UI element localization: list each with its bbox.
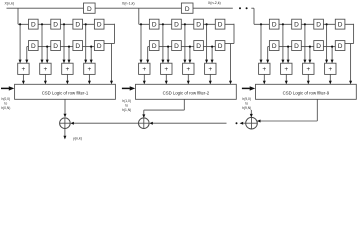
junction on row-1 line, section 9 bbox=[260, 23, 262, 25]
junction on row-1 line, section 9 bbox=[282, 23, 284, 25]
svg-text:+: + bbox=[87, 66, 91, 73]
svg-text:h(9,N): h(9,N) bbox=[242, 106, 251, 110]
register D7 (row 2) of section 9 bbox=[314, 41, 324, 51]
pair adder A2 of section 2 bbox=[161, 63, 172, 74]
svg-text:D: D bbox=[218, 22, 223, 29]
wire: row-2 tap drop 1 of section 2 bbox=[167, 47, 169, 63]
wire: adder A3 output into CSD box, section 1 bbox=[66, 74, 68, 83]
svg-text:X(n,k): X(n,k) bbox=[5, 1, 15, 5]
ellipsis dot on top line bbox=[239, 7, 241, 9]
pair adder A4 of section 2 bbox=[205, 63, 216, 74]
svg-text:CSD Logic of row filter-2: CSD Logic of row filter-2 bbox=[163, 91, 210, 96]
wire: row-1 delay line of section 2 bbox=[139, 23, 234, 25]
register D (row delay 2) on top line bbox=[181, 3, 193, 13]
svg-text:D: D bbox=[75, 43, 80, 50]
wire: wrap-around (right) of section 1 bbox=[114, 24, 116, 44]
junction on row-1 line, section 9 bbox=[326, 23, 328, 25]
junction on row-2 line, section 1 bbox=[90, 46, 92, 48]
register D2 (row 1) of section 9 bbox=[292, 19, 302, 29]
wire: row-2 tap drop 2 of section 9 bbox=[309, 47, 311, 63]
wire: adder A3 output into CSD box, section 2 bbox=[187, 74, 189, 83]
svg-text:+: + bbox=[208, 66, 212, 73]
pair adder A3 of section 2 bbox=[183, 63, 194, 74]
svg-text:+: + bbox=[328, 66, 332, 73]
wire: tap drop from top line into section 9 bbox=[253, 8, 255, 24]
wire: tap drop 4 to pair-adder of section 2 bbox=[206, 24, 208, 62]
svg-text:D: D bbox=[294, 43, 299, 50]
register D1 (row 1) of section 9 bbox=[269, 19, 279, 29]
svg-text:+: + bbox=[262, 66, 266, 73]
register D6 (row 2) of section 1 bbox=[51, 41, 61, 51]
svg-text:D: D bbox=[316, 43, 321, 50]
svg-text:D: D bbox=[97, 22, 102, 29]
wire: row-2 tap drop 1 of section 1 bbox=[46, 47, 48, 63]
pair adder A3 of section 9 bbox=[303, 63, 314, 74]
svg-text:y(n,k): y(n,k) bbox=[73, 137, 82, 141]
wire: row-2 tap drop 2 of section 1 bbox=[68, 47, 70, 63]
wire: row-1 delay line of section 9 bbox=[254, 23, 354, 25]
wire: adder S2 output to adder S1 bbox=[74, 122, 139, 124]
junction on row-1 line, section 9 bbox=[304, 23, 306, 25]
wire: row-2 segment 2 of section 9 bbox=[301, 46, 314, 48]
wire: adder A4 output into CSD box, section 1 bbox=[88, 74, 90, 83]
junction on row-1 line, section 1 bbox=[63, 23, 65, 25]
pair adder A3 of section 1 bbox=[62, 63, 73, 74]
junction on row-2 line, section 2 bbox=[167, 46, 169, 48]
wire: top line stub to section 3 bbox=[251, 7, 254, 9]
wire: tap drop 1 to pair-adder of section 1 bbox=[19, 24, 21, 62]
svg-text:+: + bbox=[284, 66, 288, 73]
wire: row-2 segment 2 of section 1 bbox=[60, 46, 73, 48]
svg-text:D: D bbox=[272, 22, 277, 29]
wire: final output y(n,k) bbox=[64, 129, 66, 138]
junction on row-2 line, section 2 bbox=[211, 46, 213, 48]
pair adder A2 of section 9 bbox=[281, 63, 292, 74]
wire: row-1 delay line of section 1 bbox=[18, 23, 115, 25]
pair adder A1 of section 2 bbox=[139, 63, 150, 74]
junction on row-2 line, section 1 bbox=[68, 46, 70, 48]
wire: row-2 tap drop 2 of section 2 bbox=[189, 47, 191, 63]
wire: wrap-around (right) of section 2 bbox=[233, 24, 235, 44]
svg-text:D: D bbox=[87, 6, 92, 13]
wire: CSD filter-2 output into adder S2 bbox=[183, 99, 185, 110]
register D (row delay 1) on top line bbox=[84, 3, 96, 13]
wire: adder A4 output into CSD box, section 9 bbox=[329, 74, 331, 83]
svg-text:D: D bbox=[316, 22, 321, 29]
svg-text:+: + bbox=[164, 66, 168, 73]
junction on row-1 line, section 1 bbox=[85, 23, 87, 25]
junction on row-2 line, section 1 bbox=[46, 46, 48, 48]
wire: partial-sum arrow into adder S9 top bbox=[250, 110, 252, 117]
wire: centre-tap drop into CSD box 2 bbox=[230, 44, 232, 84]
wire: tap drop 2 to pair-adder of section 1 bbox=[41, 24, 43, 62]
register D7 (row 2) of section 1 bbox=[73, 41, 83, 51]
wire: adder S9 output into ellipsis bbox=[240, 122, 244, 125]
coefficient input arrow of section 2 bbox=[122, 87, 130, 89]
wire: adder A4 output into CSD box, section 2 bbox=[209, 74, 211, 83]
wire: row-2 segment 3 of section 2 bbox=[203, 46, 215, 48]
block U9: CSD Logic of row filter-9 bbox=[256, 84, 357, 99]
junction on row-2 line, section 9 bbox=[287, 46, 289, 48]
svg-text:D: D bbox=[218, 43, 223, 50]
wire: tap drop 2 to pair-adder of section 9 bbox=[282, 24, 284, 62]
svg-text:D: D bbox=[196, 22, 201, 29]
svg-text:h(0,N): h(0,N) bbox=[1, 106, 10, 110]
svg-text:X(n-1,k): X(n-1,k) bbox=[122, 2, 135, 6]
junction on row-1 line, section 2 bbox=[162, 23, 164, 25]
register D8 (row 2) of section 9 bbox=[335, 41, 345, 51]
wire: tap drop 1 to pair-adder of section 2 bbox=[140, 24, 142, 62]
wire: adder A2 output into CSD box, section 2 bbox=[165, 74, 167, 83]
wire: row-2 segment 2 of section 2 bbox=[181, 46, 194, 48]
wire: centre-tap drop into CSD box 9 bbox=[350, 44, 352, 84]
junction on row-2 line, section 9 bbox=[331, 46, 333, 48]
wire: row-2 segment 3 of section 1 bbox=[83, 46, 95, 48]
wire: adder A2 output into CSD box, section 1 bbox=[44, 74, 46, 83]
wire: wrap-around (right) of section 9 bbox=[353, 24, 355, 44]
svg-text:+: + bbox=[142, 66, 146, 73]
svg-text:CSD Logic of row filter-9: CSD Logic of row filter-9 bbox=[283, 91, 330, 96]
wire: row-2 output hook of section 9 bbox=[268, 46, 270, 48]
adder S9 (output summer) bbox=[246, 117, 258, 129]
register D5 (row 2) of section 9 bbox=[269, 41, 279, 51]
register D4 (row 1) of section 2 bbox=[215, 19, 225, 29]
wire: tap drop 3 to pair-adder of section 2 bbox=[184, 24, 186, 62]
wire: row-2 segment 1 of section 1 bbox=[38, 46, 51, 48]
wire: tap drop 1 to pair-adder of section 9 bbox=[260, 24, 262, 62]
svg-text:D: D bbox=[338, 43, 343, 50]
register D4 (row 1) of section 1 bbox=[94, 19, 104, 29]
register D3 (row 1) of section 9 bbox=[314, 19, 324, 29]
junction on row-1 line, section 1 bbox=[19, 23, 21, 25]
adder S1 (output summer) bbox=[60, 118, 71, 129]
wire: row-2 segment 1 of section 2 bbox=[159, 46, 172, 48]
junction on row-1 line, section 2 bbox=[206, 23, 208, 25]
wire: tap drop 3 to pair-adder of section 1 bbox=[63, 24, 65, 62]
pair adder A1 of section 1 bbox=[18, 63, 29, 74]
svg-text:+: + bbox=[186, 66, 190, 73]
svg-text:D: D bbox=[185, 6, 190, 13]
wire: adder A1 output into CSD box, section 1 bbox=[22, 74, 24, 83]
register D4 (row 1) of section 9 bbox=[335, 19, 345, 29]
pair adder A2 of section 1 bbox=[40, 63, 51, 74]
coefficient input arrow of section 1 bbox=[1, 87, 9, 89]
wire: adder A3 output into CSD box, section 9 bbox=[307, 74, 309, 83]
wire: adder A2 output into CSD box, section 9 bbox=[285, 74, 287, 83]
wire: row-2 segment 1 of section 9 bbox=[279, 46, 292, 48]
wire: row-2 output hook of section 1 bbox=[27, 46, 29, 48]
register D3 (row 1) of section 1 bbox=[73, 19, 83, 29]
register D1 (row 1) of section 1 bbox=[29, 19, 39, 29]
register D6 (row 2) of section 2 bbox=[172, 41, 182, 51]
register D5 (row 2) of section 1 bbox=[29, 41, 39, 51]
svg-text:D: D bbox=[338, 22, 343, 29]
block U2: CSD Logic of row filter-2 bbox=[136, 84, 237, 99]
adder S2 (output summer) bbox=[139, 118, 150, 129]
wire: tap drop from top line into section 1 bbox=[17, 8, 19, 24]
junction on row-2 line, section 2 bbox=[189, 46, 191, 48]
ellipsis dot on top line bbox=[246, 7, 248, 9]
wire: tap drop 3 to pair-adder of section 9 bbox=[304, 24, 306, 62]
wire: row-2 output hook of section 2 bbox=[148, 46, 150, 48]
svg-text:+: + bbox=[21, 66, 25, 73]
junction on row-2 line, section 9 bbox=[309, 46, 311, 48]
svg-text:D: D bbox=[53, 43, 58, 50]
svg-text:to: to bbox=[4, 101, 7, 105]
wire: adder A1 output into CSD box, section 9 bbox=[263, 74, 265, 83]
svg-text:D: D bbox=[53, 22, 58, 29]
wire: CSD filter-1 output into adder S1 bbox=[64, 99, 66, 116]
svg-text:to: to bbox=[245, 101, 248, 105]
pair adder A4 of section 1 bbox=[84, 63, 95, 74]
wire: input line x(n,k) bbox=[7, 7, 233, 9]
register D1 (row 1) of section 2 bbox=[149, 19, 159, 29]
wire: row-2 tap drop 3 of section 2 bbox=[211, 47, 213, 63]
wire: tap drop 4 to pair-adder of section 1 bbox=[85, 24, 87, 62]
junction on row-1 line, section 2 bbox=[140, 23, 142, 25]
register D5 (row 2) of section 2 bbox=[149, 41, 159, 51]
wire: adder A1 output into CSD box, section 2 bbox=[143, 74, 145, 83]
wire: row-2 tap drop 3 of section 9 bbox=[331, 47, 333, 63]
wire: tap drop 2 to pair-adder of section 2 bbox=[162, 24, 164, 62]
svg-text:D: D bbox=[174, 43, 179, 50]
svg-text:D: D bbox=[294, 22, 299, 29]
svg-text:D: D bbox=[97, 43, 102, 50]
register D2 (row 1) of section 2 bbox=[172, 19, 182, 29]
junction on row-1 line, section 1 bbox=[41, 23, 43, 25]
svg-text:+: + bbox=[306, 66, 310, 73]
pair adder A1 of section 9 bbox=[259, 63, 270, 74]
register D3 (row 1) of section 2 bbox=[194, 19, 204, 29]
wire: row-2 tap drop 3 of section 1 bbox=[90, 47, 92, 63]
wire: centre-tap drop into CSD box 1 bbox=[111, 44, 113, 84]
wire: chain from omitted adders into adder S2 bbox=[152, 122, 226, 124]
svg-text:D: D bbox=[152, 43, 157, 50]
register D6 (row 2) of section 9 bbox=[292, 41, 302, 51]
svg-text:D: D bbox=[31, 22, 36, 29]
svg-text:+: + bbox=[43, 66, 47, 73]
wire: row-2 tap drop 1 of section 9 bbox=[287, 47, 289, 63]
pair adder A4 of section 9 bbox=[325, 63, 336, 74]
register D8 (row 2) of section 1 bbox=[94, 41, 104, 51]
register D8 (row 2) of section 2 bbox=[215, 41, 225, 51]
coefficient input arrow of section 9 bbox=[242, 87, 250, 89]
svg-text:D: D bbox=[196, 43, 201, 50]
wire: CSD filter-9 output into adder S9 bbox=[316, 99, 318, 121]
svg-text:+: + bbox=[65, 66, 69, 73]
svg-text:X(n-2,k): X(n-2,k) bbox=[208, 1, 221, 5]
svg-text:D: D bbox=[152, 22, 157, 29]
junction on row-1 line, section 2 bbox=[184, 23, 186, 25]
svg-text:D: D bbox=[31, 43, 36, 50]
svg-text:h(1,N): h(1,N) bbox=[122, 108, 131, 112]
register D7 (row 2) of section 2 bbox=[194, 41, 204, 51]
svg-text:D: D bbox=[75, 22, 80, 29]
svg-text:to: to bbox=[125, 104, 128, 108]
svg-text:CSD Logic of row filter-1: CSD Logic of row filter-1 bbox=[42, 91, 89, 96]
register D2 (row 1) of section 1 bbox=[51, 19, 61, 29]
wire: row-2 segment 3 of section 9 bbox=[323, 46, 335, 48]
ellipsis dot on adder chain bbox=[236, 122, 238, 124]
svg-text:D: D bbox=[174, 22, 179, 29]
wire: tap drop 4 to pair-adder of section 9 bbox=[326, 24, 328, 62]
wire: tap drop from top line into section 2 bbox=[138, 8, 140, 24]
block U1: CSD Logic of row filter-1 bbox=[15, 84, 116, 99]
svg-text:D: D bbox=[272, 43, 277, 50]
